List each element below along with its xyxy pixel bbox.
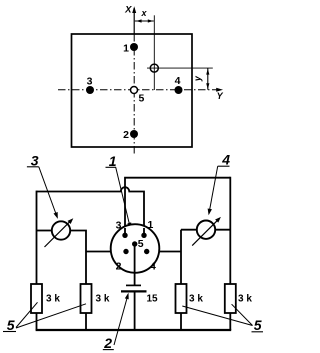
svg-text:X: X <box>124 4 132 15</box>
x dimension line <box>135 20 154 22</box>
leaders from label 5 left to R1 and R2 <box>16 302 38 327</box>
svg-text:x: x <box>141 8 148 18</box>
wire to pin 2 <box>86 251 126 253</box>
svg-text:3 k: 3 k <box>189 294 203 305</box>
svg-text:3 k: 3 k <box>46 294 60 305</box>
svg-text:4: 4 <box>150 261 156 273</box>
svg-text:5: 5 <box>254 317 262 333</box>
pin 5 lead down to capacitor <box>134 244 136 285</box>
svg-text:3 k: 3 k <box>238 294 252 305</box>
pin 3 lead stub <box>124 228 126 235</box>
point 3 (filled dot) <box>86 86 94 94</box>
svg-text:2: 2 <box>103 335 112 351</box>
capacitor C (15) <box>126 284 141 286</box>
svg-text:3 k: 3 k <box>96 294 110 305</box>
callout label 5 (right) <box>252 317 264 333</box>
Y axis arrowhead <box>216 88 223 92</box>
y dimension line <box>147 67 213 69</box>
svg-text:4: 4 <box>221 152 230 168</box>
svg-text:15: 15 <box>147 294 159 305</box>
meter P2 needle <box>192 219 218 245</box>
right bus vertical <box>229 177 231 285</box>
pin 5 dot <box>132 241 137 246</box>
resistor R2 <box>81 284 92 313</box>
meter P1 wires <box>37 230 53 232</box>
photocell envelope U1 <box>111 224 160 273</box>
leaders from label 5 right to R3 and R4 <box>182 306 252 326</box>
svg-text:5: 5 <box>7 317 15 333</box>
pin 1 lead stub <box>143 228 145 235</box>
displaced spot (open circle) <box>150 64 158 72</box>
leader from label 3 to meter P1 <box>39 167 56 215</box>
callout label 5 (left) <box>3 317 16 333</box>
resistor R4 <box>225 284 236 313</box>
x extension line <box>153 15 155 90</box>
leader from label 1 to photocell <box>116 167 130 224</box>
leader from label 4 to meter P2 <box>210 166 218 210</box>
left bus vertical <box>36 191 38 285</box>
svg-text:2: 2 <box>123 129 129 141</box>
capacitor bottom wire <box>134 293 136 331</box>
X axis arrowhead <box>132 6 136 13</box>
wire to pin 4 <box>147 251 181 253</box>
meter P2 (galvanometer, label 4) <box>197 221 215 239</box>
resistor R1 <box>31 284 42 313</box>
svg-text:1: 1 <box>148 219 154 231</box>
callout label 1 <box>106 153 117 169</box>
leader from label 2 to capacitor <box>114 298 127 346</box>
resistor R3 <box>176 284 187 313</box>
callout label 3 <box>27 153 39 169</box>
callout label 2 <box>103 335 114 351</box>
pin 4 dot <box>144 249 149 254</box>
pin 2 dot <box>123 249 128 254</box>
svg-text:4: 4 <box>175 75 181 87</box>
svg-text:3: 3 <box>87 76 93 88</box>
callout label 4 <box>218 152 231 168</box>
svg-text:5: 5 <box>139 93 145 105</box>
point 4 (filled dot) <box>175 86 183 94</box>
svg-text:3: 3 <box>31 153 39 169</box>
svg-text:y: y <box>193 75 203 82</box>
meter P1 needle <box>45 221 71 247</box>
top-left wire (pin1 to left bus) with hop over pin3 lead <box>37 187 145 235</box>
pin 1 dot <box>141 233 146 238</box>
Y axis (horizontal centerline with arrow) <box>58 89 217 91</box>
top-right wire (pin3 lead up and over to right bus) <box>125 178 230 236</box>
point 1 (filled dot) <box>130 43 138 51</box>
pin 3 dot <box>122 233 127 238</box>
svg-text:5: 5 <box>138 238 144 250</box>
svg-text:Y: Y <box>217 91 224 101</box>
X axis (vertical centerline with arrow) <box>133 8 135 156</box>
point 2 (filled dot) <box>130 130 138 138</box>
svg-text:1: 1 <box>109 153 117 169</box>
bottom bus <box>36 329 232 331</box>
meter P2 wires <box>181 229 230 231</box>
square outline <box>72 34 193 147</box>
svg-text:2: 2 <box>116 261 122 273</box>
meter P1 (galvanometer, label 3) <box>52 221 70 239</box>
svg-text:3: 3 <box>116 220 122 232</box>
point 5 (open circle at centre) <box>131 87 138 94</box>
svg-text:1: 1 <box>123 43 129 55</box>
